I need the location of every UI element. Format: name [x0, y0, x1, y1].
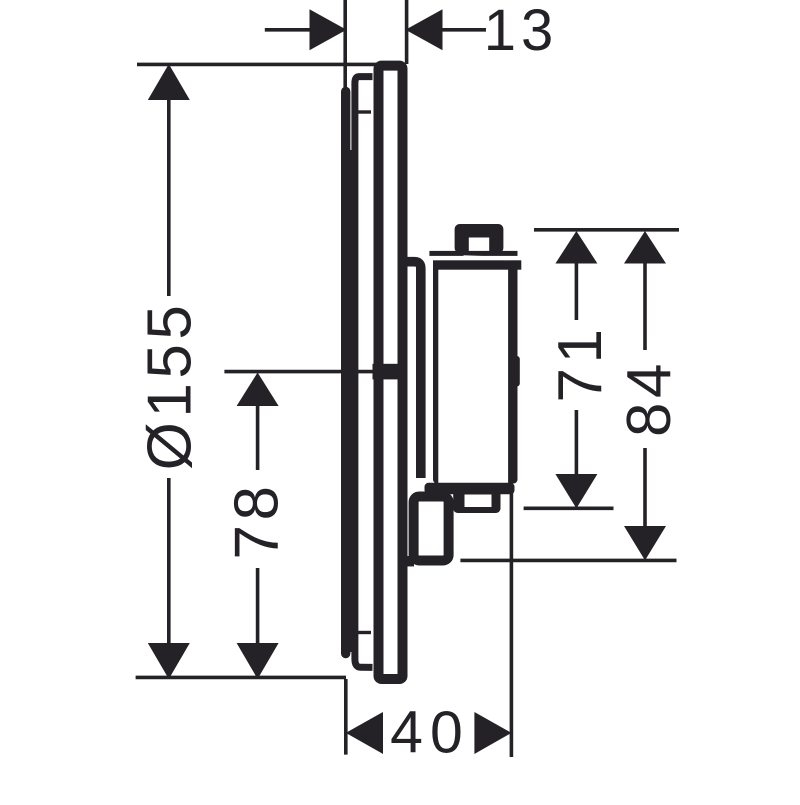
arrowhead 78 bottom — [237, 643, 279, 679]
arrowhead 40 left — [346, 712, 383, 754]
svg-text:13: 13 — [484, 0, 559, 63]
dimension line 71 upper segment — [575, 262, 579, 320]
cartridge cap bevel highlight — [464, 255, 508, 260]
extension line 40 left — [344, 679, 348, 755]
extension line 84 bottom reference — [460, 559, 676, 563]
escutcheon plate face fill between front lines — [349, 150, 353, 652]
dimension 13 right stub — [442, 28, 486, 32]
arrowhead 40 right — [474, 712, 511, 754]
supply pipe hook bottom-left extension — [404, 556, 414, 567]
cartridge cap upper bar — [429, 251, 517, 256]
dimension line D155 upper segment — [167, 98, 171, 296]
extension line 71 bottom reference — [524, 506, 614, 510]
extension line 13 right — [405, 0, 409, 64]
escutcheon rim tick top — [357, 110, 372, 113]
dimension line D155 lower segment — [167, 478, 171, 645]
dimension line 84 upper segment — [643, 262, 647, 350]
extension line 40 right — [510, 493, 514, 758]
escutcheon rim tick bottom — [357, 631, 372, 634]
arrowhead 13 right — [406, 9, 443, 50]
crossbar in back box — [373, 364, 403, 380]
svg-text:78: 78 — [223, 482, 292, 560]
arrowhead 78 top — [237, 373, 279, 407]
extension line top-left (top of plate) — [137, 63, 380, 67]
dimension line 78 upper segment — [256, 404, 260, 470]
dimension 13 left stub — [265, 28, 310, 32]
cartridge bottom knob notch — [465, 495, 492, 508]
svg-text:84: 84 — [615, 359, 684, 437]
escutcheon plate rim line — [355, 77, 373, 668]
arrowhead 13 left — [310, 9, 347, 50]
arrowhead 84 bottom — [624, 526, 666, 560]
svg-text:71: 71 — [546, 325, 615, 403]
cartridge top knob — [455, 224, 504, 253]
escutcheon plate front face line — [341, 92, 350, 654]
arrowhead 71 top — [555, 231, 597, 264]
dimension line 84 lower segment — [643, 448, 647, 526]
svg-text:Ø155: Ø155 — [136, 301, 205, 471]
arrowhead D155 top — [148, 64, 190, 100]
bracket line behind wall — [407, 262, 421, 478]
dimension line 78 lower segment — [256, 568, 260, 645]
arrowhead 71 bottom — [555, 474, 597, 508]
cartridge right nub — [509, 356, 520, 387]
cartridge knob notch — [469, 238, 489, 254]
escutcheon back box — [379, 66, 403, 679]
extension line bottom (bottom of plate) — [136, 676, 346, 680]
svg-text:40: 40 — [390, 700, 470, 766]
cartridge bottom knob — [453, 486, 500, 513]
extension line 13 left — [343, 0, 347, 88]
cartridge body interior — [438, 270, 508, 483]
supply pipe hook — [414, 497, 449, 561]
extension line mid (78 top reference) — [224, 370, 400, 374]
cartridge bottom bar — [425, 483, 515, 495]
dimension line 71 lower segment — [575, 410, 579, 474]
arrowhead D155 bottom — [148, 643, 190, 679]
cartridge body — [433, 260, 521, 269]
extension line top-right (71/84 top reference) — [534, 228, 679, 232]
arrowhead 84 top — [624, 231, 666, 264]
